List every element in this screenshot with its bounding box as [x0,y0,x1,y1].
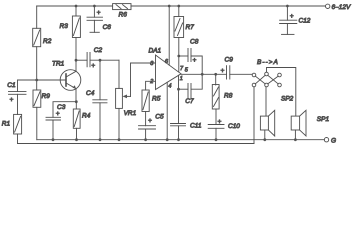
resistor R6 [113,4,131,19]
svg-text:4: 4 [168,83,171,89]
switch SA wiper arm 4 [268,76,278,84]
capacitor C6 [87,9,111,31]
svg-text:SP2: SP2 [281,96,294,103]
wire C8 left [179,55,188,57]
capacitor C5 [139,114,164,130]
wire switch bottom middle to SP2 [265,87,267,116]
node junction R7 top [177,5,180,8]
node junction R8 output [214,73,217,76]
svg-text:6–12V: 6–12V [332,4,351,11]
svg-text:VR1: VR1 [124,110,137,117]
node junction VR1 ground [118,138,121,141]
wire C5 to ground rail [145,129,147,140]
wire outer return riser to switch [253,87,255,144]
wire VR1 top riser [118,60,120,88]
node junction C3 ground [52,138,55,141]
node junction SP2 ground [263,138,266,141]
node junction SP1 ground [294,138,297,141]
capacitor C9 [221,57,234,79]
svg-text:3: 3 [150,61,154,67]
ground bar C12 [282,33,295,35]
node junction C8 C7 output [201,73,204,76]
capacitor C2 [87,47,102,69]
svg-text:R5: R5 [152,95,161,102]
svg-text:+: + [91,62,95,69]
svg-text:+: + [97,9,101,16]
svg-text:SP1: SP1 [317,116,330,123]
svg-text:5: 5 [185,67,189,73]
svg-text:1: 1 [180,76,183,82]
wire input line [18,80,67,92]
svg-text:DA1: DA1 [149,48,162,55]
svg-text:R4: R4 [82,113,91,120]
capacitor C3 [46,104,66,120]
svg-text:R9: R9 [42,93,51,100]
node junction R3 top [75,5,78,8]
node junction C5 ground [144,138,147,141]
wire C3 to ground rail [52,120,54,140]
speaker SP2 [260,96,293,137]
wire VR1 wiper to pin3 [131,63,156,96]
wire top supply rail right segment [131,5,326,7]
svg-text:+: + [56,111,60,118]
svg-text:+: + [148,117,152,124]
wire C12 drop [286,6,288,20]
switch SA contact top left [252,73,256,77]
node junction pin6 rail [168,5,171,8]
svg-text:C4: C4 [86,90,95,97]
wire C7 left [179,88,189,90]
svg-text:C7: C7 [185,98,194,105]
terminal supply positive [326,4,330,8]
resistor R3 [60,16,81,38]
wire VR1 to ground rail [118,108,120,139]
node junction pin4 ground [166,138,169,141]
svg-text:R1: R1 [2,120,11,127]
node junction emitter C3 [75,100,78,103]
capacitor C12 [280,13,311,25]
wire C10 to ground rail [215,128,217,139]
svg-text:R3: R3 [60,23,69,30]
svg-text:C12: C12 [299,18,311,25]
wire R1 bottom to outer return line [17,134,19,144]
node junction C2 out C4 [99,59,102,62]
switch SA contact top right [278,73,282,77]
resistor R9 [33,90,50,107]
node junction pin7 C8 [177,55,180,58]
terminal G [324,138,328,142]
wire R7 column pin7 [178,6,180,72]
wire TR1 collector up [75,59,77,71]
capacitor C11 [171,123,202,130]
capacitor C8 [188,39,199,64]
wire C12 to ground [286,24,288,35]
switch SA contact bottom middle [265,83,269,87]
wire output line [181,73,227,75]
wire C1 to R1 [17,94,19,114]
wire TR1 emitter down [75,89,77,102]
wire pin1 column [178,75,180,123]
svg-text:+: + [10,97,14,104]
svg-text:C11: C11 [190,123,202,130]
node junction C11 ground [177,138,180,141]
switch SA contact top middle [265,72,269,76]
speaker SP1 [291,110,329,136]
svg-text:G: G [331,138,336,145]
ground bar C6 [90,31,99,33]
svg-text:7: 7 [180,66,184,72]
svg-text:C9: C9 [225,57,234,64]
wire C6 drop [93,6,95,17]
svg-text:C10: C10 [228,123,240,130]
wire R4 to ground rail [76,128,78,139]
node junction pin1 C7 [177,88,180,91]
wire outer return line [18,143,255,145]
svg-text:+: + [193,57,197,64]
resistor R1 [2,114,22,134]
wire pin2 to R5 [146,81,156,90]
node junction C12 top [286,5,289,8]
wire C7 right to output [191,74,202,89]
potentiometer VR1 [116,88,137,117]
svg-text:2: 2 [149,79,153,85]
switch SA wiper arm 1 [255,75,265,84]
wire C4 column [99,60,101,100]
resistor R8 [212,85,232,110]
wire C6 to ground [93,20,95,32]
wire bottom ground rail [37,139,325,141]
wire R5 to C5 [145,112,147,126]
svg-text:C6: C6 [103,24,112,31]
resistor R7 [174,17,194,38]
wire C11 to ground rail [178,126,180,140]
svg-text:C5: C5 [155,114,164,121]
svg-text:+: + [221,68,225,75]
wire C8 right to output [191,56,202,74]
switch SA contact bottom left [252,83,256,87]
svg-text:C1: C1 [7,82,16,89]
resistor R2 [33,28,52,46]
wire C2 out [90,59,119,61]
wire pin6 to rail [168,6,170,65]
svg-text:B-->A: B-->A [257,59,279,66]
svg-text:+: + [218,118,222,125]
svg-text:C2: C2 [94,47,103,54]
resistor R4 [73,109,90,128]
wire R3 column [75,6,77,60]
wire SP2 to ground rail [264,130,266,140]
svg-text:R6: R6 [119,12,128,19]
wire SP1 to ground rail [294,130,296,140]
capacitor C1 [7,82,26,104]
capacitor C4 [86,90,107,103]
wire R8 top [215,74,217,85]
node junction base [35,79,38,82]
wire switch common to SP1 [267,68,296,117]
wire R8 to C10 [215,109,217,125]
svg-text:R2: R2 [43,38,52,45]
wire C3 branch [53,102,76,118]
wire emitter to R4 [75,102,77,109]
wire pin4 to ground rail [166,82,168,139]
transistor TR1 [52,60,81,90]
svg-text:C8: C8 [190,39,199,46]
svg-text:+: + [290,13,294,20]
node junction C6 top [93,5,96,8]
svg-text:R7: R7 [186,24,195,31]
node junction C4 ground [99,138,102,141]
node junction collector [75,59,78,62]
capacitor C7 [185,84,194,106]
switch SA wiper arm 2 [268,75,278,84]
switch SA wiper arm 3 [255,76,265,84]
wire R2 column [36,6,38,140]
resistor R5 [142,90,161,112]
svg-text:R8: R8 [224,93,233,100]
wire C4 to ground rail [99,103,101,140]
capacitor C10 [208,118,240,130]
svg-text:TR1: TR1 [52,60,65,67]
op-amp DA1 [149,48,182,90]
node junction C10 ground [215,138,218,141]
switch SA contact bottom right [278,83,282,87]
wire top supply rail left segment [37,5,113,7]
node junction R4 ground [75,138,78,141]
wire C9 to switch [230,73,252,75]
wire collector to C2 [76,59,87,61]
